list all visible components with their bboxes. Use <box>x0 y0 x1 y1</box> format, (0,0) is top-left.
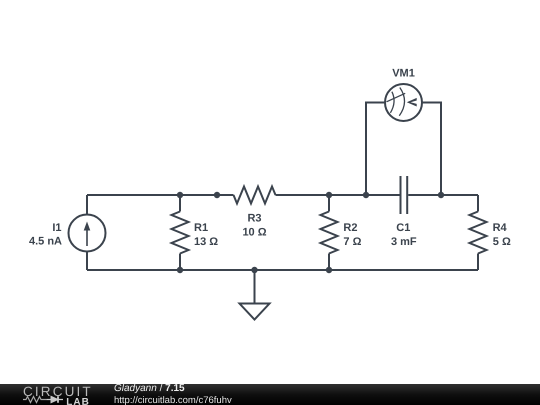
svg-text:13 Ω: 13 Ω <box>194 236 218 248</box>
logo diode <box>46 396 63 402</box>
node junction bottom R2 <box>326 267 332 273</box>
resistor R1 <box>172 195 189 270</box>
resistor R3 <box>234 187 276 204</box>
svg-text:LAB: LAB <box>66 397 90 405</box>
svg-text:I1: I1 <box>52 222 61 234</box>
footer url text <box>114 395 232 405</box>
svg-text:R3: R3 <box>247 212 261 224</box>
footer title text <box>114 383 185 394</box>
capacitor C1 <box>401 176 408 214</box>
svg-text:R4: R4 <box>493 222 508 234</box>
wire voltmeter right lead <box>422 103 441 196</box>
wire top rail right (C1 right plate to R4 top corner) <box>408 194 478 196</box>
wire voltmeter left lead <box>366 103 385 196</box>
wire top rail middle (R3 right to C1 left plate) <box>276 194 400 196</box>
node junction ground <box>251 267 257 273</box>
wire bottom rail <box>87 269 478 271</box>
ground <box>240 270 270 320</box>
node junction top mid <box>214 192 220 198</box>
node junction VM left <box>363 192 369 198</box>
node junction bottom R1 <box>177 267 183 273</box>
svg-text:7 Ω: 7 Ω <box>343 236 361 248</box>
logo resistor squiggle <box>23 396 46 402</box>
svg-text:C1: C1 <box>396 222 410 234</box>
CircuitLab logo <box>18 382 113 405</box>
svg-text:R2: R2 <box>343 222 357 234</box>
svg-text:3 mF: 3 mF <box>391 236 417 248</box>
current source I1 <box>69 195 106 270</box>
svg-text:4.5 nA: 4.5 nA <box>29 236 62 248</box>
voltmeter VM1 <box>385 84 422 121</box>
svg-text:10 Ω: 10 Ω <box>242 227 266 239</box>
resistor R4 <box>470 195 487 270</box>
node junction VM right <box>438 192 444 198</box>
svg-text:R1: R1 <box>194 222 208 234</box>
node junction top R1 <box>177 192 183 198</box>
wire top rail left (I1 top to R3 left) <box>87 194 234 196</box>
svg-text:5 Ω: 5 Ω <box>493 236 511 248</box>
footer bar <box>0 384 540 405</box>
svg-text:VM1: VM1 <box>392 68 415 80</box>
node junction top R2 <box>326 192 332 198</box>
resistor R2 <box>321 195 338 270</box>
